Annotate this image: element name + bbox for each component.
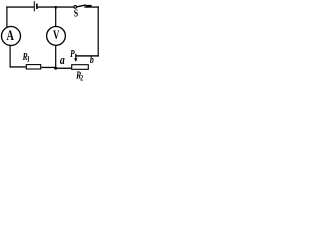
switch lever [77,5,86,7]
rheostat slider stem [75,54,76,59]
battery short thick plate [36,4,38,9]
wire slider to right vertical [76,55,99,56]
resistor R1 rectangle [26,65,40,69]
wire left vertical [6,6,7,27]
ammeter A circle [2,27,21,46]
wire top-left horizontal [6,6,34,7]
wire node a to rheostat [56,68,72,69]
wire R1 to node a [41,67,55,68]
svg-text:S: S [74,8,78,21]
switch fixed contact thick bar [86,5,92,8]
rheostat slider arrowhead [74,58,77,61]
node a junction dot [54,67,57,70]
junction dot node top of voltmeter branch [55,6,57,9]
svg-text:b: b [90,55,94,66]
svg-text:2: 2 [80,74,83,82]
voltmeter V circle [47,27,66,46]
svg-text:V: V [53,28,59,42]
wire voltmeter bottom stub [55,45,56,68]
svg-text:A: A [7,27,15,43]
background [0,0,103,82]
svg-text:a: a [60,54,65,68]
rheostat R2 rectangle [72,65,89,70]
svg-text:P: P [70,48,75,59]
wire bottom-left horizontal [10,66,26,67]
wire right vertical [98,6,99,56]
wire voltmeter top stub [55,7,56,27]
switch S left contact circle [74,6,77,9]
wire below ammeter vertical [10,46,11,68]
svg-text:1: 1 [27,55,30,64]
wire top-right horizontal [84,6,99,7]
battery long plate [34,1,35,11]
wire top-middle horizontal [38,6,74,7]
